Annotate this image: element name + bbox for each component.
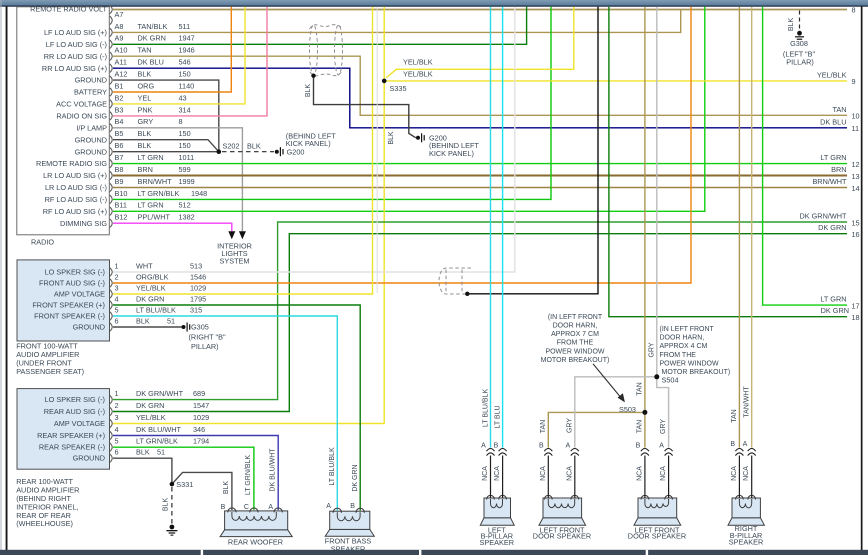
svg-text:SYSTEM: SYSTEM — [219, 257, 249, 266]
dashed BLK lead S202 to G200 — [222, 142, 274, 152]
svg-text:FRONT SPEAKER (+): FRONT SPEAKER (+) — [32, 301, 105, 310]
front amp signal names — [32, 268, 105, 332]
left b-pillar pin wires and connectors — [491, 456, 503, 499]
svg-text:A12: A12 — [115, 70, 128, 79]
svg-text:A7: A7 — [115, 10, 124, 19]
svg-text:A8: A8 — [115, 22, 124, 31]
svg-text:1029: 1029 — [190, 283, 206, 292]
svg-text:S331: S331 — [176, 480, 193, 489]
ground G308 left b-pillar — [783, 11, 816, 67]
svg-text:4: 4 — [115, 425, 119, 434]
left b-pillar label — [480, 525, 514, 547]
svg-text:ORG/BLK: ORG/BLK — [136, 272, 169, 281]
svg-text:5: 5 — [115, 437, 119, 446]
rear woofer pin letters — [221, 504, 274, 511]
splice S331 — [170, 480, 194, 489]
label TAN above S503 — [636, 382, 643, 395]
svg-text:YEL: YEL — [138, 93, 152, 102]
svg-text:1999: 1999 — [179, 177, 195, 186]
svg-text:ACC VOLTAGE: ACC VOLTAGE — [56, 100, 107, 109]
wire B7 LT GRN 1011 to edge 12 — [113, 163, 847, 165]
svg-text:S202: S202 — [223, 142, 240, 151]
label YEL/BLK upper — [403, 58, 433, 67]
svg-text:B: B — [730, 441, 735, 448]
svg-text:SPEAKER: SPEAKER — [480, 538, 514, 547]
svg-text:17: 17 — [852, 301, 860, 310]
svg-text:ORG: ORG — [138, 81, 155, 90]
svg-text:LT GRN: LT GRN — [138, 153, 164, 162]
svg-text:POWER WINDOW: POWER WINDOW — [545, 348, 604, 355]
second door NCA labels — [636, 466, 667, 481]
wire YEL/BLK 1029 riser through S335 to rear amp — [113, 7, 384, 424]
note in left front door harn approx 7 cm — [541, 314, 610, 364]
wire DK GRN 1547 rear amp to edge 16 — [113, 234, 847, 412]
svg-text:NCA: NCA — [494, 466, 501, 481]
label DK BLU/WHT rear woofer pin A — [270, 448, 277, 492]
svg-text:12: 12 — [852, 160, 860, 169]
svg-text:GROUND: GROUND — [75, 147, 107, 156]
svg-text:RR LO AUD SIG (-): RR LO AUD SIG (-) — [44, 52, 107, 61]
wire YEL/BLK S335 to edge 9 — [384, 80, 847, 82]
svg-text:NCA: NCA — [566, 466, 573, 481]
svg-text:A: A — [481, 443, 486, 450]
left front door pin letters — [539, 443, 571, 450]
svg-text:3: 3 — [115, 413, 119, 422]
wire B12 PPL/WHT 1382 to interior lights — [113, 223, 232, 231]
svg-text:346: 346 — [193, 425, 205, 434]
radio block caption — [31, 238, 54, 247]
svg-text:BLK: BLK — [247, 142, 261, 151]
svg-text:G308: G308 — [790, 39, 808, 48]
svg-text:REMOTE RADIO VOLT: REMOTE RADIO VOLT — [30, 5, 107, 14]
svg-text:TAN: TAN — [731, 409, 738, 422]
splice S504 — [654, 374, 678, 384]
rear amp pin brackets — [110, 395, 112, 462]
right b-pillar pin letters — [730, 441, 747, 448]
svg-text:1547: 1547 — [193, 401, 209, 410]
left frame border — [1, 0, 8, 555]
svg-text:DK GRN/WHT: DK GRN/WHT — [136, 389, 184, 398]
svg-text:A: A — [268, 504, 273, 511]
svg-text:TAN: TAN — [636, 420, 643, 433]
svg-text:MOTOR BREAKOUT): MOTOR BREAKOUT) — [662, 369, 731, 376]
front bass speaker — [325, 508, 374, 536]
svg-text:LT GRN/BLK: LT GRN/BLK — [138, 189, 180, 198]
svg-text:1948: 1948 — [191, 189, 207, 198]
svg-text:BLK: BLK — [163, 498, 170, 512]
svg-text:51: 51 — [167, 316, 175, 325]
svg-text:DK GRN: DK GRN — [138, 34, 166, 43]
wire B5 BLK 150 to S202 — [113, 140, 219, 152]
svg-text:B: B — [494, 443, 499, 450]
svg-text:B11: B11 — [115, 201, 127, 210]
svg-text:689: 689 — [193, 389, 205, 398]
svg-text:B8: B8 — [115, 165, 124, 174]
svg-text:AMP VOLTAGE: AMP VOLTAGE — [54, 419, 105, 428]
svg-text:150: 150 — [179, 70, 191, 79]
svg-text:1546: 1546 — [190, 272, 206, 281]
svg-text:FRONT SPEAKER (-): FRONT SPEAKER (-) — [34, 312, 105, 321]
second door pin wires and connectors — [645, 456, 669, 499]
svg-text:TAN/BLK: TAN/BLK — [138, 22, 168, 31]
svg-text:B5: B5 — [115, 129, 124, 138]
label TAN second door B — [636, 420, 643, 433]
wire BLK shield drain radio pairs to G200 — [314, 76, 416, 138]
svg-text:PILLAR): PILLAR) — [786, 57, 814, 66]
rear amp signal names — [37, 395, 105, 463]
svg-text:B2: B2 — [115, 93, 124, 102]
svg-text:B: B — [539, 443, 544, 450]
svg-text:TAN/WHT: TAN/WHT — [743, 386, 750, 418]
svg-text:C: C — [244, 504, 249, 511]
svg-text:1140: 1140 — [179, 81, 195, 90]
svg-text:PPL/WHT: PPL/WHT — [138, 213, 171, 222]
svg-text:43: 43 — [179, 93, 187, 102]
dashed BLK lead S331 to chassis ground — [163, 487, 172, 525]
svg-text:BLK: BLK — [788, 18, 795, 32]
svg-text:DK GRN: DK GRN — [352, 464, 359, 491]
label DK GRN front bass B — [352, 464, 359, 491]
svg-text:LT GRN: LT GRN — [820, 295, 846, 304]
wire DK GRN from top to edge 18 — [609, 7, 847, 317]
front bass pin letters — [326, 503, 355, 510]
svg-text:512: 512 — [179, 201, 191, 210]
svg-text:LT GRN/BLK: LT GRN/BLK — [245, 455, 252, 496]
svg-text:DK GRN: DK GRN — [136, 401, 164, 410]
svg-text:APPROX 7 CM: APPROX 7 CM — [551, 331, 599, 338]
svg-text:DOOR HARN,: DOOR HARN, — [660, 335, 705, 342]
svg-text:(IN LEFT FRONT: (IN LEFT FRONT — [548, 314, 603, 321]
wire DK GRN 1795 front amp to front bass B — [113, 305, 360, 511]
shield symbol around radio audio pair — [310, 25, 343, 76]
svg-text:546: 546 — [179, 58, 191, 67]
svg-text:1: 1 — [115, 261, 119, 270]
front amplifier caption — [16, 342, 84, 377]
svg-text:YEL/BLK: YEL/BLK — [403, 69, 433, 78]
label BLK rear woofer pin B — [223, 481, 230, 495]
svg-text:A10: A10 — [115, 46, 128, 55]
interior lights arrows — [228, 231, 246, 239]
svg-text:POWER WINDOW: POWER WINDOW — [660, 360, 719, 367]
wire B1 ORG 1140 — [113, 7, 231, 92]
svg-text:TAN: TAN — [636, 382, 643, 395]
label LT BLU/BLK left b-pillar A — [482, 389, 489, 428]
left b-pillar pin letters — [481, 443, 498, 450]
svg-text:51: 51 — [157, 448, 165, 457]
svg-text:TAN: TAN — [138, 46, 152, 55]
splice S335 — [382, 79, 407, 94]
label TAN left front door B — [540, 420, 547, 433]
wire TAN/WHT right b-pillar A from top — [751, 7, 753, 448]
wire B10 LT GRN/BLK 1948 — [113, 7, 551, 200]
svg-text:B: B — [221, 504, 226, 511]
svg-text:599: 599 — [179, 165, 191, 174]
svg-text:18: 18 — [852, 313, 860, 322]
top toolbar bar — [0, 0, 868, 7]
svg-text:BRN: BRN — [138, 165, 153, 174]
svg-text:B: B — [350, 503, 355, 510]
rear woofer label — [228, 537, 283, 546]
svg-text:B6: B6 — [115, 141, 124, 150]
svg-text:RADIO ON SIG: RADIO ON SIG — [56, 112, 107, 121]
wire B6 BLK 150 to S202 — [113, 151, 219, 153]
right b-pillar pin wires and connectors — [739, 456, 751, 499]
svg-text:BRN/WHT: BRN/WHT — [138, 177, 173, 186]
svg-text:10: 10 — [852, 112, 860, 121]
svg-text:GRY: GRY — [660, 419, 667, 434]
right b-pillar NCA labels — [731, 466, 750, 481]
svg-text:PILLAR): PILLAR) — [191, 342, 219, 351]
svg-text:G200: G200 — [287, 147, 305, 156]
label LT BLU/BLK front bass A — [329, 447, 336, 486]
svg-text:1011: 1011 — [179, 153, 195, 162]
ground G200 second behind left kick panel — [416, 133, 479, 158]
svg-text:FROM THE: FROM THE — [557, 340, 594, 347]
svg-text:6: 6 — [115, 316, 119, 325]
svg-text:NCA: NCA — [660, 466, 667, 481]
wire LT GRN from top to edge 17 — [763, 7, 847, 305]
svg-text:BLK: BLK — [136, 448, 150, 457]
wire ORG/BLK 1546 front amp pin2 — [113, 7, 691, 283]
svg-text:NCA: NCA — [540, 466, 547, 481]
svg-text:REAR SPEAKER (+): REAR SPEAKER (+) — [37, 431, 105, 440]
svg-text:NCA: NCA — [636, 466, 643, 481]
svg-text:A: A — [659, 443, 664, 450]
radio left signal names — [30, 5, 107, 228]
wire B11 LT GRN 512 — [113, 7, 705, 212]
svg-text:S504: S504 — [662, 375, 679, 384]
svg-text:B7: B7 — [115, 153, 124, 162]
svg-text:RADIO: RADIO — [31, 238, 54, 247]
svg-text:BLK: BLK — [136, 316, 150, 325]
wire BLK S331 to rear woofer B — [172, 472, 232, 510]
svg-text:B10: B10 — [115, 189, 128, 198]
right edge wire labels — [799, 70, 849, 315]
svg-text:REMOTE RADIO SIG: REMOTE RADIO SIG — [36, 159, 107, 168]
front bass speaker label — [325, 537, 372, 554]
svg-text:(RIGHT "B": (RIGHT "B" — [189, 332, 226, 341]
svg-text:B3: B3 — [115, 105, 124, 114]
wire BLK shield drain front amp pair — [467, 7, 598, 294]
svg-text:BLK: BLK — [138, 129, 152, 138]
svg-text:DK BLU: DK BLU — [820, 117, 846, 126]
ground G305 right b-pillar — [182, 323, 226, 352]
svg-text:DOOR HARN,: DOOR HARN, — [553, 323, 598, 330]
svg-text:A: A — [743, 441, 748, 448]
svg-text:14: 14 — [852, 184, 860, 193]
svg-text:S503: S503 — [619, 405, 636, 414]
wire LT BLU/BLK 315 front amp to front bass A — [113, 316, 337, 511]
radio pin labels — [115, 10, 208, 222]
svg-text:314: 314 — [179, 105, 191, 114]
svg-text:REAR WOOFER: REAR WOOFER — [228, 537, 283, 546]
svg-text:1946: 1946 — [179, 46, 195, 55]
wire YEL/BLK S335 upper branch — [386, 7, 574, 78]
svg-text:LT BLU/BLK: LT BLU/BLK — [482, 389, 489, 428]
svg-text:B1: B1 — [115, 81, 124, 90]
wire LT BLU left b-pillar B from top — [502, 7, 504, 448]
svg-text:YEL/BLK: YEL/BLK — [403, 58, 433, 67]
wire GRY from top to S504 — [656, 7, 658, 377]
svg-text:LT BLU/BLK: LT BLU/BLK — [329, 447, 336, 486]
svg-text:LR LO AUD SIG (+): LR LO AUD SIG (+) — [43, 171, 107, 180]
svg-text:1029: 1029 — [193, 413, 209, 422]
wire B2 YEL 43 — [113, 7, 245, 104]
svg-text:REAR AUD SIG (-): REAR AUD SIG (-) — [44, 407, 105, 416]
svg-text:YEL/BLK: YEL/BLK — [136, 413, 166, 422]
front amplifier box — [17, 260, 110, 341]
wire B4 GRY 8 to interior lights — [113, 128, 242, 232]
svg-text:DK GRN: DK GRN — [136, 294, 164, 303]
svg-text:MOTOR BREAKOUT): MOTOR BREAKOUT) — [541, 357, 610, 364]
svg-text:DK GRN: DK GRN — [818, 223, 846, 232]
wire DK GRN/WHT 689 rear amp to edge 15 — [113, 222, 847, 400]
left front door NCA labels — [540, 466, 574, 481]
svg-text:GROUND: GROUND — [73, 454, 105, 463]
front amp pin brackets — [110, 268, 112, 331]
front amp pin labels — [115, 261, 207, 325]
svg-text:16: 16 — [852, 230, 860, 239]
svg-text:1795: 1795 — [190, 294, 206, 303]
wire TAN from top through S503 to door speaker B — [644, 7, 646, 448]
svg-text:NCA: NCA — [743, 466, 750, 481]
svg-text:A: A — [565, 443, 570, 450]
label BLK drain to G200 — [388, 131, 395, 145]
svg-text:BLK: BLK — [138, 141, 152, 150]
svg-text:DOOR SPEAKER: DOOR SPEAKER — [628, 532, 686, 541]
svg-text:A: A — [326, 503, 331, 510]
splice S202 — [217, 142, 240, 154]
svg-text:LO SPKER SIG (-): LO SPKER SIG (-) — [45, 268, 105, 277]
svg-text:TAN: TAN — [540, 420, 547, 433]
left front door pin wires and connectors — [548, 456, 575, 499]
wire A10 TAN 1946 to edge 10 — [113, 56, 847, 115]
svg-text:DIMMING SIG: DIMMING SIG — [60, 219, 107, 228]
svg-text:B12: B12 — [115, 213, 128, 222]
svg-text:150: 150 — [179, 141, 191, 150]
svg-text:8: 8 — [179, 117, 183, 126]
wire LT GRN/BLK 1794 rear amp to rear woofer C — [113, 447, 254, 510]
svg-text:BLK: BLK — [305, 84, 312, 98]
label BLK G308 lead — [788, 18, 795, 32]
wire TAN right b-pillar B from top — [738, 7, 740, 448]
label TAN/WHT right b-pillar A — [743, 386, 750, 418]
label GRY second door A — [660, 419, 667, 434]
svg-text:513: 513 — [190, 261, 202, 270]
wire A8 TAN/BLK 511 — [113, 10, 681, 33]
svg-text:3: 3 — [115, 283, 119, 292]
svg-text:LF LO AUD SIG (-): LF LO AUD SIG (-) — [46, 40, 107, 49]
svg-text:TAN: TAN — [832, 105, 846, 114]
svg-text:PNK: PNK — [138, 105, 153, 114]
label LT BLU left b-pillar B — [495, 405, 502, 428]
ground G200 behind left kick panel — [275, 131, 336, 156]
label GRY above S504 — [648, 342, 655, 357]
svg-text:LT BLU: LT BLU — [495, 405, 502, 428]
svg-text:1382: 1382 — [179, 213, 195, 222]
svg-text:B: B — [636, 443, 641, 450]
label YEL/BLK lower — [403, 69, 433, 78]
right edge wire numbers — [852, 6, 860, 323]
svg-text:GROUND: GROUND — [75, 76, 107, 85]
wire top TAN remote radio volt to edge 8 — [113, 9, 847, 11]
wire TAN S503 branch to first door speaker B — [548, 412, 645, 447]
svg-text:DK GRN: DK GRN — [821, 306, 849, 315]
svg-text:2: 2 — [115, 272, 119, 281]
svg-text:511: 511 — [179, 22, 191, 31]
svg-text:15: 15 — [852, 218, 860, 227]
svg-text:LT GRN: LT GRN — [820, 153, 846, 162]
svg-text:GRY: GRY — [138, 117, 154, 126]
wire WHT 513 front amp pin1 — [113, 7, 515, 272]
svg-text:DK GRN/WHT: DK GRN/WHT — [799, 212, 847, 221]
svg-text:GROUND: GROUND — [73, 323, 105, 332]
svg-text:SPEAKER: SPEAKER — [331, 544, 365, 553]
second left front door speaker — [634, 495, 681, 525]
left front door speaker label — [533, 525, 591, 540]
svg-text:YEL/BLK: YEL/BLK — [136, 283, 166, 292]
svg-text:A11: A11 — [115, 58, 127, 67]
svg-text:6: 6 — [115, 448, 119, 457]
splice S503 — [619, 405, 647, 415]
radio pin brackets — [110, 5, 112, 227]
svg-text:BLK: BLK — [388, 131, 395, 145]
svg-text:DK BLU/WHT: DK BLU/WHT — [270, 448, 277, 492]
svg-text:SPEAKER: SPEAKER — [729, 538, 763, 547]
svg-text:GRY: GRY — [648, 342, 655, 357]
svg-text:FROM THE: FROM THE — [660, 352, 697, 359]
svg-text:DK BLU/WHT: DK BLU/WHT — [136, 425, 182, 434]
svg-text:BLK: BLK — [138, 70, 152, 79]
right b-pillar label — [729, 524, 763, 547]
svg-text:DK BLU: DK BLU — [138, 58, 164, 67]
svg-text:1947: 1947 — [179, 34, 195, 43]
svg-text:(WHEELHOUSE): (WHEELHOUSE) — [16, 519, 73, 528]
left b-pillar NCA labels — [482, 466, 501, 481]
shield drain dot front amp pair — [465, 292, 469, 296]
svg-text:4: 4 — [115, 294, 119, 303]
label BLK shield drain — [305, 84, 312, 98]
label TAN right b-pillar B — [731, 409, 738, 422]
svg-text:FRONT AUD SIG (-): FRONT AUD SIG (-) — [39, 279, 105, 288]
svg-text:LT GRN: LT GRN — [138, 201, 164, 210]
right frame border — [861, 7, 863, 551]
wire GRY S504 jog to second door speaker A — [657, 377, 669, 448]
label GRY left front door A — [566, 418, 573, 433]
svg-text:LO SPKER SIG (-): LO SPKER SIG (-) — [45, 395, 105, 404]
svg-text:BLK: BLK — [223, 481, 230, 495]
svg-text:KICK PANEL): KICK PANEL) — [429, 149, 474, 158]
svg-text:G305: G305 — [191, 323, 209, 332]
svg-text:150: 150 — [179, 129, 191, 138]
radio connector box — [17, 7, 110, 235]
wire DK BLU/WHT 346 rear amp to rear woofer A — [113, 436, 278, 511]
faint page seam line — [376, 7, 378, 293]
svg-text:APPROX 4 CM: APPROX 4 CM — [660, 343, 708, 350]
svg-text:RF LO AUD SIG (-): RF LO AUD SIG (-) — [45, 195, 107, 204]
svg-text:LT BLU/BLK: LT BLU/BLK — [136, 305, 176, 314]
svg-text:A9: A9 — [115, 34, 124, 43]
wire YEL/BLK 1029 front amp pin3 — [113, 7, 373, 294]
wire BLK 51 front amp to G305 — [113, 326, 182, 328]
rear amp pin labels — [115, 389, 210, 457]
svg-text:9: 9 — [852, 77, 856, 86]
svg-text:1: 1 — [115, 389, 119, 398]
wire BLK 51 rear amp to S331 — [113, 458, 172, 484]
svg-text:WHT: WHT — [136, 261, 153, 270]
shield symbol around front amp pair — [439, 268, 471, 294]
svg-text:I/P LAMP: I/P LAMP — [76, 123, 107, 132]
